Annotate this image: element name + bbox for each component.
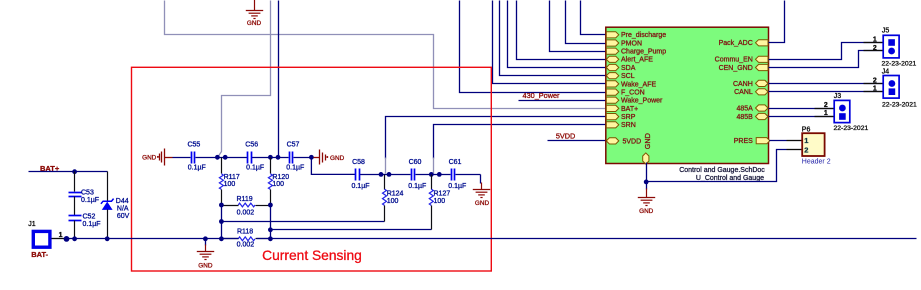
svg-text:SDA: SDA [621, 65, 636, 72]
power port GND left of C55 [142, 149, 172, 166]
wire row2 [311, 157, 480, 174]
svg-text:C57: C57 [287, 141, 300, 148]
wire 485B to J3 pin 1 [769, 116, 834, 118]
sheet entry SDA [606, 64, 635, 72]
svg-text:GND: GND [643, 133, 652, 149]
svg-text:100: 100 [272, 181, 284, 188]
svg-text:CEN_GND: CEN_GND [719, 65, 753, 72]
svg-text:Current Sensing: Current Sensing [262, 248, 362, 263]
wire grey net to BAT+ pin [165, 1, 607, 109]
sheet entry Wake_AFE [606, 81, 656, 89]
svg-text:100: 100 [224, 181, 236, 188]
resistor R120 [268, 158, 289, 206]
connector J5 [864, 28, 900, 58]
sheet entry Pre_discharge [606, 32, 666, 40]
connector J1 [28, 221, 69, 247]
junction dots row2 [379, 172, 442, 177]
svg-text:GND: GND [142, 155, 157, 162]
capacitor C53 [69, 172, 100, 204]
svg-text:Control and Gauge.SchDoc: Control and Gauge.SchDoc [679, 167, 765, 174]
svg-text:F_CON: F_CON [621, 90, 645, 97]
svg-text:PMON: PMON [621, 40, 642, 47]
wire R127 return [268, 227, 432, 232]
svg-text:0.002: 0.002 [237, 209, 255, 216]
svg-text:GND: GND [198, 262, 213, 269]
capacitor C60 [408, 159, 426, 190]
capacitor C61 [448, 159, 466, 190]
svg-text:C52: C52 [83, 214, 96, 221]
resistor R118 [219, 229, 273, 249]
svg-text:0.1µF: 0.1µF [246, 164, 264, 171]
svg-text:485B: 485B [736, 114, 753, 121]
sheet entry Charge_Pump [606, 48, 666, 56]
wire net to C56-C57 junction [278, 1, 280, 158]
wire PRES to P6 pin 1 [770, 140, 802, 142]
svg-text:0.1µF: 0.1µF [351, 183, 369, 190]
resistor R124 [383, 175, 404, 222]
wire R124 return [219, 219, 385, 224]
wire SRP [386, 117, 607, 174]
sheet entry F_CON [606, 89, 644, 97]
svg-text:C58: C58 [352, 159, 365, 166]
sheet entry 485B [736, 113, 768, 121]
svg-text:R118: R118 [237, 229, 253, 236]
sheet entry Pack_ADC [719, 40, 768, 48]
svg-text:22-23-2021: 22-23-2021 [882, 61, 917, 68]
wire Pack_ADC [769, 1, 785, 43]
capacitor C57 [286, 141, 304, 171]
wire Wake_AFE [493, 1, 607, 84]
wire CANH to J4 pin 2 [769, 83, 883, 85]
sheet entry CANL [734, 89, 768, 97]
svg-text:2: 2 [824, 102, 828, 109]
ground GND below sheet symbol [638, 189, 655, 206]
wire SRN [434, 125, 607, 174]
connector J4 [864, 69, 900, 99]
ground GND top [246, 0, 263, 19]
sheet entry Commu_EN [715, 56, 768, 64]
wire row1 [173, 157, 312, 159]
svg-text:GND: GND [330, 155, 345, 162]
svg-text:Wake_AFE: Wake_AFE [621, 81, 656, 88]
svg-text:R119: R119 [236, 196, 252, 203]
wire BAT+ [29, 169, 108, 174]
svg-text:GND: GND [639, 208, 654, 215]
wire Commu_EN to J5 pin 1 [769, 43, 883, 60]
svg-text:0.1µF: 0.1µF [81, 197, 99, 204]
capacitor C52 [69, 197, 101, 239]
sheet entry PMON [606, 40, 642, 48]
svg-text:5VDD: 5VDD [623, 138, 642, 145]
capacitor C56 [245, 141, 264, 171]
wire Charge_Pump [550, 1, 607, 52]
svg-text:J4: J4 [882, 69, 890, 76]
svg-text:R127: R127 [434, 191, 451, 198]
svg-text:C61: C61 [449, 159, 462, 166]
connector P6 [802, 126, 825, 156]
svg-text:Alert_AFE: Alert_AFE [621, 57, 653, 64]
svg-text:J1: J1 [28, 221, 36, 228]
svg-text:0.002: 0.002 [237, 242, 255, 249]
svg-text:R117: R117 [224, 174, 240, 181]
svg-text:R124: R124 [387, 191, 404, 198]
svg-text:1: 1 [59, 232, 63, 239]
net label 5VDD and wire [548, 131, 607, 140]
ground GND right of C61 [473, 175, 490, 208]
sheet entry SRP [606, 114, 635, 122]
svg-text:2: 2 [804, 146, 808, 155]
svg-text:C53: C53 [81, 190, 94, 197]
connector J3 [815, 93, 850, 122]
svg-text:Commu_EN: Commu_EN [715, 57, 753, 64]
svg-text:CANL: CANL [734, 89, 753, 96]
junction dots row1 [215, 155, 314, 160]
svg-text:1: 1 [804, 136, 808, 145]
svg-text:100: 100 [387, 198, 399, 205]
wire PMON [566, 1, 607, 44]
junction at ground net [644, 180, 649, 185]
sheet entry 5VDD [606, 138, 641, 146]
svg-text:22-23-2021: 22-23-2021 [834, 125, 869, 132]
svg-text:D44: D44 [116, 198, 129, 205]
svg-text:R120: R120 [272, 174, 289, 181]
svg-text:485A: 485A [736, 105, 753, 112]
sheet entry SCL [606, 73, 634, 81]
sheet entry PRES [734, 138, 770, 146]
svg-text:0.1µF: 0.1µF [188, 164, 206, 171]
svg-text:0.1µF: 0.1µF [408, 183, 426, 190]
sheet entry Alert_AFE [606, 56, 653, 64]
svg-text:2: 2 [873, 45, 877, 52]
sheet entry CEN_GND [719, 64, 768, 72]
capacitor C55 [187, 141, 205, 171]
svg-text:BAT+: BAT+ [621, 106, 638, 113]
ground GND battery [197, 239, 214, 270]
svg-text:0.1µF: 0.1µF [286, 164, 304, 171]
svg-text:SRN: SRN [621, 122, 636, 129]
diode D44 [101, 172, 130, 239]
wire 485A to J3 pin 2 [769, 108, 834, 110]
svg-text:CANH: CANH [733, 81, 753, 88]
svg-text:Pack_ADC: Pack_ADC [719, 40, 753, 47]
svg-text:J5: J5 [882, 28, 890, 35]
svg-text:Header 2: Header 2 [802, 158, 831, 165]
svg-text:J3: J3 [834, 93, 842, 100]
svg-text:5VDD: 5VDD [556, 131, 575, 140]
svg-text:1: 1 [873, 36, 877, 43]
svg-text:2: 2 [873, 77, 877, 84]
svg-text:Wake_Power: Wake_Power [621, 98, 663, 105]
svg-text:GND: GND [247, 20, 262, 27]
svg-text:P6: P6 [802, 126, 811, 133]
wire P6 pin 2 to ground net [647, 150, 802, 182]
svg-text:Pre_discharge: Pre_discharge [621, 32, 666, 39]
svg-text:22-23-2021: 22-23-2021 [882, 101, 917, 108]
wire CANL to J4 pin 1 [769, 91, 883, 93]
sheet entry 485A [736, 105, 768, 113]
net label 430_Power and wire Wake_Power [519, 91, 607, 100]
svg-text:SRP: SRP [621, 114, 636, 121]
svg-text:GND: GND [475, 200, 490, 207]
svg-text:BAT-: BAT- [31, 250, 48, 259]
wire F_CON [460, 1, 607, 93]
resistor R127 [429, 175, 450, 230]
wire grey net to C55-C56 junction [218, 1, 271, 158]
sheet entry BAT+ [606, 105, 638, 113]
svg-text:C55: C55 [187, 141, 200, 148]
svg-text:0.1µF: 0.1µF [448, 183, 466, 190]
svg-text:1: 1 [824, 110, 828, 117]
svg-text:100: 100 [434, 198, 446, 205]
power port GND right of C57 [314, 150, 345, 165]
sheet symbol U_Control and Gauge [606, 27, 769, 163]
sheet entry SRN [606, 122, 635, 130]
sheet entry CANH [733, 80, 768, 88]
svg-text:PRES: PRES [734, 138, 753, 145]
svg-text:Charge_Pump: Charge_Pump [621, 49, 666, 56]
wire SDA [508, 1, 607, 68]
svg-text:0.1µF: 0.1µF [83, 221, 101, 228]
sheet entry GND bottom [643, 133, 652, 164]
svg-text:SCL: SCL [621, 73, 635, 80]
wire Alert_AFE [517, 1, 607, 60]
wire GND pin to ground [646, 163, 648, 190]
blanket Current Sensing box [132, 67, 492, 271]
resistor R117 [219, 158, 240, 206]
wire Pre_discharge [581, 1, 607, 35]
capacitor C58 [351, 159, 369, 190]
svg-text:C56: C56 [245, 141, 258, 148]
wire R117 column lower [221, 206, 223, 239]
wire BAT- row [67, 236, 917, 241]
wire CEN_GND to J5 pin 2 [769, 51, 883, 68]
svg-text:430_Power: 430_Power [523, 91, 560, 100]
wire R120 column lower [270, 206, 272, 239]
resistor R119 [219, 196, 273, 216]
svg-text:C60: C60 [409, 159, 422, 166]
wire SCL [500, 1, 607, 76]
svg-text:1: 1 [873, 86, 877, 93]
sheet entry Wake_Power [606, 97, 663, 105]
svg-text:60V: 60V [117, 213, 130, 220]
svg-text:N/A: N/A [117, 206, 129, 213]
